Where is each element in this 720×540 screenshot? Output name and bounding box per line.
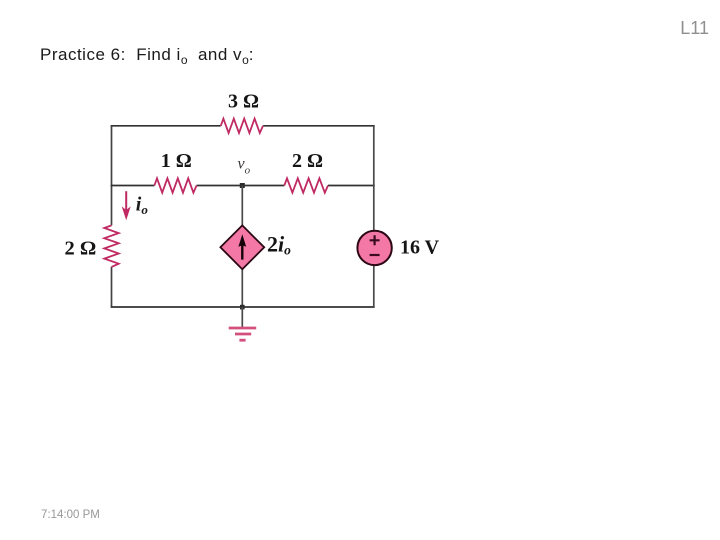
title text <box>40 45 254 65</box>
current arrow i_o <box>122 191 131 220</box>
ground bar 3 <box>239 339 245 342</box>
label v_o node voltage <box>238 156 251 177</box>
svg-text:16 V: 16 V <box>400 237 440 259</box>
ground bar 1 <box>229 327 257 330</box>
wire bottom <box>111 306 375 308</box>
svg-text:1 Ω: 1 Ω <box>161 150 192 172</box>
label 2i_o <box>267 231 291 257</box>
wire top <box>111 125 375 127</box>
ground bar 2 <box>235 333 251 336</box>
svg-text:2 Ω: 2 Ω <box>292 150 323 172</box>
resistor R-3ohm zigzag <box>221 119 263 133</box>
svg-text:3 Ω: 3 Ω <box>228 91 259 113</box>
svg-text:2 Ω: 2 Ω <box>65 238 97 260</box>
label i_o <box>136 193 149 217</box>
label 1 ohm <box>161 150 192 172</box>
wire middle horizontal <box>111 185 375 187</box>
node dot bottom <box>240 305 245 310</box>
arrow inside dependent source <box>238 234 246 259</box>
node dot v_o <box>240 183 245 188</box>
dependent current source diamond <box>220 225 264 269</box>
svg-text:2io: 2io <box>267 231 291 257</box>
label 2 ohm left <box>65 238 97 260</box>
label 2 ohm right <box>292 150 323 172</box>
label 16 V <box>400 237 440 259</box>
plus sign of source <box>370 235 380 245</box>
slide number L11 <box>680 18 709 39</box>
ground stem <box>241 307 243 328</box>
label 3 ohm <box>228 91 259 113</box>
resistor R-2ohm-left zigzag vertical <box>104 225 118 267</box>
svg-text:io: io <box>136 193 149 217</box>
wire right vertical <box>373 126 375 307</box>
minus sign of source <box>370 254 380 256</box>
svg-text:vo: vo <box>238 156 251 177</box>
resistor R-1ohm zigzag <box>154 178 196 192</box>
wire middle vertical <box>241 186 243 308</box>
wire left vertical <box>111 126 113 307</box>
voltage source 16V circle <box>357 231 391 265</box>
clock 7:14:00 PM <box>41 509 100 521</box>
resistor R-2ohm-right zigzag <box>284 178 328 192</box>
